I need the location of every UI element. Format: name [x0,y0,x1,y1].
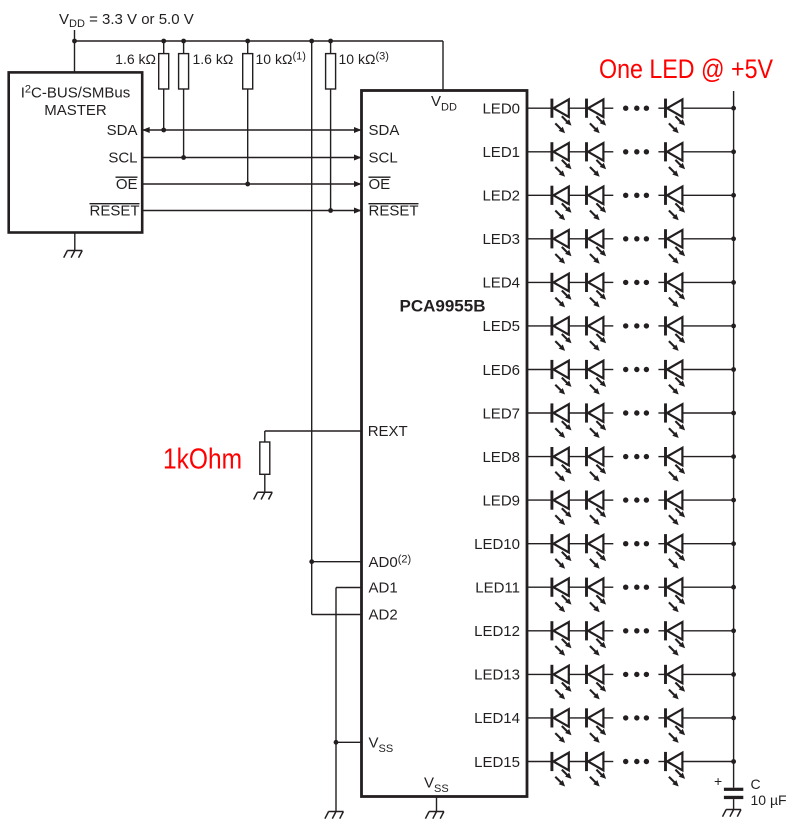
svg-text:MASTER: MASTER [44,102,107,119]
wire LED4 pin to first LED [527,281,552,283]
wire LED3 to +5V rail [682,238,733,240]
wire LED7 between D7a and D7b [569,412,587,414]
wire LED10 between D10a and D10b [569,543,587,545]
wire LED1 stub before D1n [658,151,665,153]
node LED3 junction on +5V rail [731,236,736,241]
node VDD junction at R4 [328,39,333,44]
svg-text:10 kΩ(1): 10 kΩ(1) [256,51,306,68]
node RESET junction with R4 [328,208,333,213]
LED D11n [666,578,686,613]
wire LED15 stub before D15n [658,761,665,763]
node LED7 junction on +5V rail [731,411,736,416]
node LED14 junction on +5V rail [731,716,736,721]
node LED9 junction on +5V rail [731,498,736,503]
ellipsis dots row 14 [623,715,649,720]
wire capacitor to ground [733,799,735,809]
wire LED10 stub after D10b [603,543,613,545]
ellipsis dots row 12 [623,628,649,633]
wire LED10 stub before D10n [658,543,665,545]
wire LED0 stub after D0b [603,107,613,109]
svg-text:LED15: LED15 [474,754,520,771]
LED D8a [552,447,572,482]
wire R3 bottom to OE line [247,89,249,184]
node SCL junction with R2 [181,155,186,160]
LED D3a [552,229,572,264]
svg-text:LED12: LED12 [474,623,520,640]
wire LED15 between D15a and D15b [569,761,587,763]
LED D0n [666,99,686,134]
svg-text:LED14: LED14 [474,710,520,727]
svg-text:C: C [751,776,761,792]
overline OE (PCA9955B) [369,176,391,178]
wire AD1 down to ground [335,588,337,812]
svg-text:1.6 kΩ: 1.6 kΩ [193,51,234,67]
wire LED8 to +5V rail [682,456,733,458]
wire VSS left pin connection [336,741,362,743]
resistor R5 1 kOhm REXT [260,442,270,474]
wire LED13 stub before D13n [658,673,665,675]
wire LED9 pin to first LED [527,499,552,501]
wire LED5 stub after D5b [603,325,613,327]
wire LED3 pin to first LED [527,238,552,240]
ground (capacitor) [723,810,742,817]
wire LED8 between D8a and D8b [569,456,587,458]
wire +5V LED supply rail [733,91,735,788]
LED D14b [587,708,607,743]
LED D5a [552,316,572,351]
wire LED1 to +5V rail [682,151,733,153]
svg-text:+: + [714,773,722,789]
LED D6b [587,360,607,395]
ellipsis dots row 9 [623,497,649,502]
resistor R3 10 kOhm OE pull-up [243,54,253,89]
svg-text:LED13: LED13 [474,667,520,684]
svg-text:SDA: SDA [107,122,138,139]
wire REXT pin to resistor [265,430,362,432]
LED D4b [587,273,607,308]
svg-text:SCL: SCL [108,150,137,167]
LED D14a [552,708,572,743]
ellipsis dots row 13 [623,672,649,677]
svg-text:I2C-BUS/SMBus: I2C-BUS/SMBus [21,84,130,102]
wire VDD rail down to AD0/AD2 [311,41,313,615]
LED D10b [587,534,607,569]
wire LED2 pin to first LED [527,194,552,196]
wire LED4 to +5V rail [682,281,733,283]
LED D1n [666,142,686,177]
svg-text:LED9: LED9 [482,492,520,509]
wire LED14 between D14a and D14b [569,717,587,719]
wire LED2 between D2a and D2b [569,194,587,196]
wire LED7 pin to first LED [527,412,552,414]
wire SCL bus line [142,157,361,159]
LED D4a [552,273,572,308]
LED D6n [666,360,686,395]
svg-text:1kOhm: 1kOhm [163,444,242,476]
wire LED6 between D6a and D6b [569,369,587,371]
node OE junction with R3 [245,182,250,187]
overline RESET (PCA9955B) [369,203,419,205]
wire LED1 stub after D1b [603,151,613,153]
wire LED14 to +5V rail [682,717,733,719]
svg-text:One LED @ +5V: One LED @ +5V [599,54,773,84]
wire LED12 between D12a and D12b [569,630,587,632]
arrowhead OE into PCA9955B [354,181,362,187]
svg-text:LED1: LED1 [482,144,520,161]
LED D0a [552,99,572,134]
node LED2 junction on +5V rail [731,193,736,198]
resistor R1 1.6 kOhm SDA pull-up [159,54,169,89]
wire LED13 to +5V rail [682,673,733,675]
svg-text:LED2: LED2 [482,188,520,205]
wire LED15 stub after D15b [603,761,613,763]
wire LED2 stub after D2b [603,194,613,196]
node VDD junction at R2 [181,39,186,44]
node SDA junction with R1 [161,128,166,133]
LED D7a [552,403,572,438]
node LED6 junction on +5V rail [731,367,736,372]
svg-text:LED4: LED4 [482,275,520,292]
wire LED6 pin to first LED [527,369,552,371]
LED D15a [552,752,572,787]
LED D9n [666,491,686,526]
wire LED6 to +5V rail [682,369,733,371]
LED D9b [587,491,607,526]
node VSS junction on AD1 ground line [334,740,339,745]
wire LED0 stub before D0n [658,107,665,109]
wire VDD horizontal rail [75,40,444,42]
svg-text:10 µF: 10 µF [751,792,787,808]
svg-text:LED0: LED0 [482,101,520,118]
ground (REXT resistor) [254,492,273,499]
wire SDA bus line [142,129,361,131]
wire LED8 pin to first LED [527,456,552,458]
svg-text:OE: OE [369,176,391,193]
node AD0 junction [309,559,314,564]
wire LED3 between D3a and D3b [569,238,587,240]
wire LED7 stub before D7n [658,412,665,414]
wire AD1 pin connection [336,587,362,589]
wire LED12 pin to first LED [527,630,552,632]
wire LED4 between D4a and D4b [569,281,587,283]
LED D14n [666,708,686,743]
node LED5 junction on +5V rail [731,324,736,329]
wire LED2 stub before D2n [658,194,665,196]
svg-text:LED11: LED11 [475,580,520,597]
wire LED14 stub before D14n [658,717,665,719]
LED D10a [552,534,572,569]
wire rail to R3 top [247,41,249,54]
svg-text:SCL: SCL [369,150,398,167]
wire LED0 pin to first LED [527,107,552,109]
ellipsis dots row 3 [623,236,649,241]
LED D11a [552,578,572,613]
ellipsis dots row 11 [623,585,649,590]
wire R2 bottom to SCL line [183,89,185,158]
ellipsis dots row 2 [623,193,649,198]
svg-text:AD1: AD1 [369,580,398,597]
LED D12a [552,621,572,656]
wire LED5 stub before D5n [658,325,665,327]
wire LED1 between D1a and D1b [569,151,587,153]
LED D12b [587,621,607,656]
ground (AD1/VSS) [325,812,344,819]
wire VSS bottom pin to ground [436,797,438,812]
ellipsis dots row 0 [623,106,649,111]
LED D13b [587,665,607,700]
wire LED13 pin to first LED [527,673,552,675]
wire LED11 pin to first LED [527,586,552,588]
LED D3n [666,229,686,264]
svg-text:REXT: REXT [368,423,408,440]
arrowhead SDA into PCA9955B [354,127,362,133]
node VDD junction at AD0/AD2 line [309,39,314,44]
wire LED3 stub before D3n [658,238,665,240]
LED D10n [666,534,686,569]
LED D2n [666,186,686,221]
node LED13 junction on +5V rail [731,672,736,677]
ellipsis dots row 7 [623,410,649,415]
wire LED5 between D5a and D5b [569,325,587,327]
ellipsis dots row 6 [623,367,649,372]
svg-text:PCA9955B: PCA9955B [400,297,486,316]
LED D8n [666,447,686,482]
overline RESET (master) [90,203,140,205]
LED D1a [552,142,572,177]
node LED10 junction on +5V rail [731,541,736,546]
ellipsis dots row 5 [623,323,649,328]
wire LED7 to +5V rail [682,412,733,414]
LED D9a [552,491,572,526]
svg-text:VDD = 3.3 V or 5.0 V: VDD = 3.3 V or 5.0 V [59,11,194,30]
node LED12 junction on +5V rail [731,628,736,633]
node LED15 junction on +5V rail [731,759,736,764]
arrowhead RESET into PCA9955B [354,208,362,214]
wire LED0 to +5V rail [682,107,733,109]
wire LED6 stub before D6n [658,369,665,371]
wire LED7 stub after D7b [603,412,613,414]
wire R1 bottom to SDA line [163,89,165,130]
capacitor C 10 uF [724,788,743,799]
node VDD junction at R3 [245,39,250,44]
wire LED9 stub before D9n [658,499,665,501]
LED D7n [666,403,686,438]
wire LED14 pin to first LED [527,717,552,719]
LED D4n [666,273,686,308]
LED D2a [552,186,572,221]
resistor R4 10 kOhm RESET pull-up [326,54,336,89]
ellipsis dots row 4 [623,280,649,285]
wire LED9 between D9a and D9b [569,499,587,501]
ellipsis dots row 15 [623,759,649,764]
overline OE (master) [116,176,138,178]
block U1 I2C-BUS/SMBus MASTER [9,72,143,232]
svg-text:RESET: RESET [89,203,139,220]
wire LED5 pin to first LED [527,325,552,327]
node LED0 junction on +5V rail [731,106,736,111]
LED D3b [587,229,607,264]
wire AD0 pin connection [312,561,362,563]
LED D1b [587,142,607,177]
wire LED1 pin to first LED [527,151,552,153]
wire LED10 pin to first LED [527,543,552,545]
ground (master) [64,251,83,258]
wire LED11 between D11a and D11b [569,586,587,588]
wire LED13 between D13a and D13b [569,673,587,675]
wire master VSS stem to ground [74,233,76,251]
wire LED13 stub after D13b [603,673,613,675]
LED D15b [587,752,607,787]
svg-text:AD2: AD2 [369,607,398,624]
wire LED8 stub after D8b [603,456,613,458]
svg-text:LED3: LED3 [482,231,520,248]
wire RESET line [142,210,361,212]
svg-text:SDA: SDA [369,122,400,139]
wire LED8 stub before D8n [658,456,665,458]
ground (VSS bottom) [425,812,444,819]
wire LED5 to +5V rail [682,325,733,327]
node LED8 junction on +5V rail [731,454,736,459]
svg-text:LED7: LED7 [482,405,520,422]
svg-text:LED6: LED6 [482,362,520,379]
svg-text:LED8: LED8 [482,449,520,466]
wire rail to R2 top [183,41,185,54]
wire LED15 pin to first LED [527,761,552,763]
LED D13n [666,665,686,700]
wire rail to R1 top [163,41,165,54]
resistor R2 1.6 kOhm SCL pull-up [179,54,189,89]
arrowhead SCL into PCA9955B [354,155,362,161]
svg-text:RESET: RESET [369,203,419,220]
ellipsis dots row 10 [623,541,649,546]
wire LED4 stub after D4b [603,281,613,283]
svg-text:LED5: LED5 [482,318,520,335]
node LED1 junction on +5V rail [731,149,736,154]
wire OE line [142,183,361,185]
wire AD2 pin connection [312,614,362,616]
wire VDD rail down to PCA9955B VDD pin [442,41,444,90]
LED D12n [666,621,686,656]
wire LED10 to +5V rail [682,543,733,545]
wire LED12 to +5V rail [682,630,733,632]
block U2 PCA9955B LED driver [362,91,528,797]
LED D13a [552,665,572,700]
LED D6a [552,360,572,395]
arrowhead SDA into master [142,127,150,133]
svg-text:1.6 kΩ: 1.6 kΩ [115,51,156,67]
wire LED4 stub before D4n [658,281,665,283]
wire LED14 stub after D14b [603,717,613,719]
LED D5n [666,316,686,351]
node LED11 junction on +5V rail [731,585,736,590]
wire R5 bottom to ground [264,474,266,492]
wire LED0 between D0a and D0b [569,107,587,109]
LED D5b [587,316,607,351]
wire LED11 stub after D11b [603,586,613,588]
LED D15n [666,752,686,787]
node LED4 junction on +5V rail [731,280,736,285]
LED D7b [587,403,607,438]
node VDD junction at master stem [72,39,77,44]
wire LED12 stub after D12b [603,630,613,632]
wire LED3 stub after D3b [603,238,613,240]
LED D0b [587,99,607,134]
ellipsis dots row 1 [623,149,649,154]
wire REXT down to R5 top [264,431,266,442]
wire LED9 to +5V rail [682,499,733,501]
wire LED11 stub before D11n [658,586,665,588]
wire rail to R4 top [330,41,332,54]
LED D11b [587,578,607,613]
wire R4 bottom to RESET line [330,89,332,211]
wire LED6 stub after D6b [603,369,613,371]
svg-text:LED10: LED10 [474,536,520,553]
LED D2b [587,186,607,221]
ellipsis dots row 8 [623,454,649,459]
svg-text:10 kΩ(3): 10 kΩ(3) [339,51,389,68]
LED D8b [587,447,607,482]
node VDD junction at R1 [161,39,166,44]
wire LED11 to +5V rail [682,586,733,588]
wire LED15 to +5V rail [682,761,733,763]
wire LED2 to +5V rail [682,194,733,196]
wire VDD stem from label to master box [74,30,76,74]
svg-text:OE: OE [116,176,138,193]
wire LED9 stub after D9b [603,499,613,501]
wire LED12 stub before D12n [658,630,665,632]
